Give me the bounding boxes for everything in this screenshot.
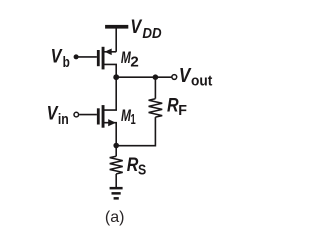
svg-text:V: V	[179, 65, 192, 87]
svg-text:V: V	[47, 103, 59, 124]
svg-text:V: V	[51, 46, 63, 67]
svg-text:(a): (a)	[105, 209, 125, 226]
svg-text:S: S	[138, 163, 146, 179]
svg-text:b: b	[63, 55, 70, 71]
svg-text:DD: DD	[142, 26, 162, 42]
svg-text:R: R	[127, 155, 139, 176]
svg-text:F: F	[178, 103, 187, 119]
svg-text:2: 2	[130, 54, 138, 70]
svg-text:in: in	[58, 112, 69, 128]
svg-text:V: V	[130, 17, 142, 38]
svg-text:out: out	[191, 74, 212, 90]
svg-text:R: R	[167, 95, 179, 116]
svg-text:1: 1	[131, 112, 136, 128]
